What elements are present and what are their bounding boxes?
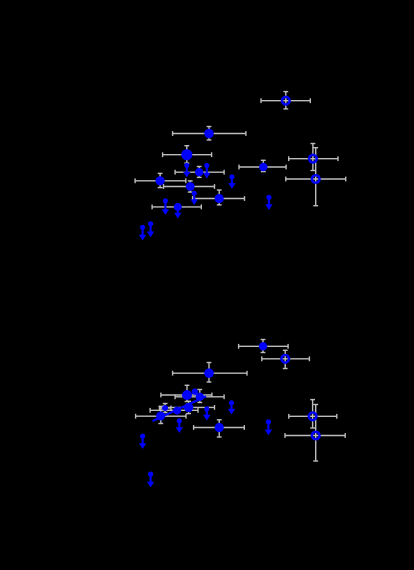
upper limit A6 down arrow (162, 198, 169, 215)
data point F6 filled circle (186, 182, 195, 191)
error bar F7 vertical (217, 190, 222, 205)
data point B5 filled circle (156, 411, 165, 420)
error bar F4 horizontal (239, 165, 286, 170)
data point O1b open circle (281, 355, 289, 363)
error bar B6 horizontal (164, 405, 215, 410)
error bar F4 vertical (261, 160, 266, 171)
data point B6 filled circle (184, 403, 193, 412)
error bar B4 horizontal (239, 344, 289, 349)
error bar B4 vertical (261, 340, 266, 353)
data point F4 filled circle (259, 163, 267, 171)
upper limit A4 down arrow (265, 195, 272, 210)
data point B7 filled circle (215, 423, 224, 432)
error bar F5 horizontal (135, 178, 186, 183)
error bar F1 horizontal (173, 131, 246, 136)
error bar O3b vertical (313, 405, 318, 462)
error bar O2b horizontal (289, 414, 337, 419)
error bar B7 horizontal (194, 425, 245, 430)
error bar B2 horizontal (161, 393, 212, 398)
data point F5 filled circle (156, 176, 165, 185)
data point F3 filled circle (195, 168, 203, 176)
data point B4 filled circle (259, 342, 267, 350)
error bar B5 horizontal (136, 414, 186, 419)
upper limit Ab3 down arrow (176, 418, 183, 433)
upper limit Ab4 down arrow (139, 434, 146, 449)
error bar B6 vertical (186, 401, 191, 413)
error bar F2 vertical (184, 146, 189, 163)
upper limit A8 down arrow (139, 225, 146, 241)
upper limit Ab6 down arrow (265, 419, 272, 435)
error bar F3 vertical (197, 167, 202, 178)
error bar O2 horizontal (289, 156, 338, 161)
error bar B5 vertical (158, 406, 163, 423)
error bar F1 vertical (207, 127, 212, 141)
upper limit Ab5 down arrow (147, 472, 154, 488)
data point B2s filled circle (192, 389, 198, 395)
data point O3b open circle (312, 432, 320, 440)
error bar F6 horizontal (164, 184, 215, 189)
data point O1 open circle (282, 97, 290, 105)
error bar O1b horizontal (262, 356, 310, 361)
error bar O2 vertical (311, 144, 316, 171)
error bar F7 horizontal (193, 196, 245, 201)
upper limit Ab1 down arrow (203, 406, 210, 420)
error bar O1b vertical (283, 350, 288, 368)
error bar B1 vertical (207, 363, 212, 383)
error bar B3 vertical (197, 390, 202, 403)
error bar B7 vertical (217, 420, 222, 437)
error bar B8 horizontal (150, 408, 198, 413)
error bar B2 vertical (185, 385, 190, 401)
data point F1 filled circle (204, 129, 214, 139)
error bar S1 horizontal (160, 406, 172, 411)
upper limit A5 down arrow (191, 191, 198, 205)
error bar B3 horizontal (175, 394, 224, 399)
data point O3 open circle (312, 175, 320, 183)
data point B3 filled circle (196, 393, 204, 401)
data point B1 filled circle (204, 368, 214, 378)
error bar O1 horizontal (261, 98, 310, 103)
error bar O1 vertical (283, 92, 288, 109)
data point B2 filled circle (182, 390, 192, 400)
upper limit A3 down arrow (228, 174, 235, 189)
upper limit A1 down arrow (183, 163, 190, 178)
error bar O3 horizontal (286, 177, 346, 182)
upper limit A2 down arrow (203, 163, 210, 179)
error bar F8 horizontal (152, 205, 201, 210)
error bar O3 vertical (313, 148, 318, 206)
data point O2 open circle (309, 155, 317, 163)
data point F7 filled circle (215, 194, 224, 203)
upper limit A9 down arrow (147, 221, 154, 237)
error bar F5 vertical (158, 173, 163, 187)
data point B8 filled circle (173, 407, 181, 415)
error bar O3b horizontal (285, 433, 345, 438)
error bar S1 vertical (163, 404, 168, 413)
error bar B1 horizontal (173, 371, 247, 376)
error bar F3 horizontal (175, 170, 224, 175)
data point F2 filled circle (181, 149, 192, 160)
upper limit Ab2 down arrow (228, 400, 235, 414)
upper limit F8-limit down arrow (174, 204, 181, 218)
error bar O2b vertical (310, 400, 315, 428)
diagonal arrow annotation (153, 396, 207, 421)
error bar F2 horizontal (163, 152, 212, 157)
data point S1 filled circle (162, 405, 168, 411)
error bar F6 vertical (188, 181, 193, 192)
data point O2b open circle (309, 413, 317, 421)
data point F8 filled circle (174, 203, 182, 211)
